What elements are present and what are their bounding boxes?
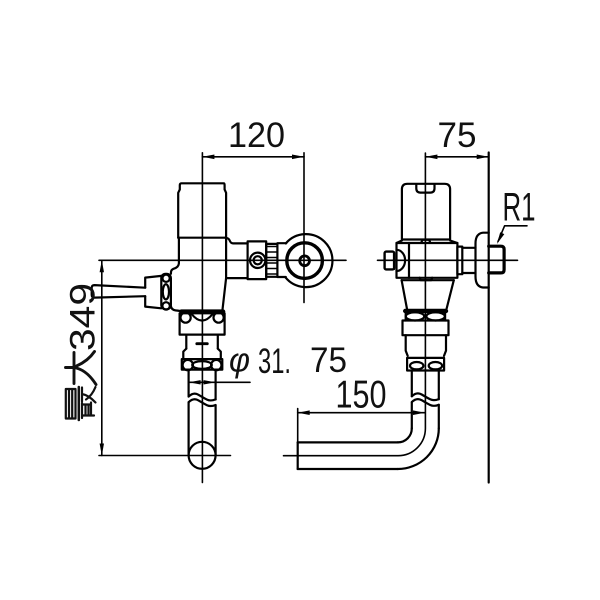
- right view body cap: [402, 184, 450, 240]
- cap to block flares: [397, 241, 458, 244]
- cap top slot: [416, 184, 434, 192]
- left view horizontal center line: [99, 259, 346, 261]
- right view center line with elbow curve: [284, 153, 426, 456]
- seat bump lower: [420, 278, 433, 280]
- outlet collar: [457, 247, 462, 275]
- ball center bold circle: [300, 256, 310, 266]
- upper nut right ball: [214, 313, 224, 323]
- dimension line max349: [101, 260, 103, 455]
- tailpipe bottom outlet circle: [189, 442, 216, 469]
- ball right crescent: [320, 250, 322, 270]
- lower nut middle ellipse: [192, 361, 212, 369]
- dimension 150 extension line: [297, 409, 299, 443]
- svg-text:R1: R1: [503, 186, 536, 230]
- svg-text:φ: φ: [229, 342, 250, 380]
- wall nipple: [462, 248, 475, 273]
- adjuster slot: [197, 342, 208, 345]
- upper nut middle arc: [192, 314, 213, 321]
- knurled ring: [266, 244, 277, 277]
- knurl ribs: [266, 247, 277, 275]
- narrow section sides: [406, 335, 446, 356]
- collar ellipse left: [406, 312, 424, 320]
- lower flare left: [183, 349, 186, 360]
- svg-text:120: 120: [228, 116, 285, 155]
- cone top line: [402, 279, 454, 281]
- arrow 349 bottom: [100, 444, 104, 456]
- arrow phi right: [204, 380, 216, 384]
- ball left crescent: [287, 250, 289, 270]
- right break lower wavy: [412, 399, 439, 406]
- right nut ellipse left: [410, 362, 423, 369]
- pipe open end: [297, 442, 299, 469]
- arrow 75 left: [425, 155, 437, 160]
- dimension line 120: [202, 156, 304, 158]
- stop screw washer: [393, 253, 395, 270]
- dimension line 150: [298, 412, 425, 414]
- tailpipe lower segment: [189, 402, 216, 455]
- flange top ball: [163, 275, 170, 282]
- upper union nut: [180, 313, 225, 334]
- elbow outer arc: [398, 428, 439, 469]
- handle lever grip: [92, 285, 146, 298]
- R1 leader: [498, 226, 527, 242]
- svg-text:349: 349: [64, 283, 103, 351]
- lower union nut: [182, 359, 223, 370]
- kanji dai (big): [66, 352, 97, 385]
- coupling nut donut inner: [254, 256, 262, 264]
- horizontal pipe bottom: [298, 468, 398, 470]
- outlet horizontal center line: [99, 455, 231, 457]
- spud flange outer circle: [285, 234, 332, 287]
- arrow 120 left: [202, 155, 214, 160]
- coupling nut donut outer: [250, 253, 265, 268]
- stop screw head: [385, 252, 395, 270]
- R1 leader arrow: [497, 232, 504, 244]
- svg-text:75: 75: [310, 341, 347, 380]
- svg-text:75: 75: [438, 116, 477, 155]
- body left side: [171, 238, 179, 274]
- handle cone: [145, 276, 161, 308]
- collar ellipse right: [426, 312, 444, 320]
- body right lower taper: [223, 278, 227, 310]
- wall boss R1: [489, 246, 504, 273]
- kanji sai (most): [66, 387, 96, 420]
- tailpipe upper segment: [189, 370, 216, 400]
- tailpipe break upper wavy: [189, 394, 216, 401]
- right view mid block: [397, 243, 458, 278]
- right packing thick band: [405, 309, 446, 313]
- bonnet D arc: [397, 250, 406, 271]
- arrow 120 right: [292, 155, 304, 160]
- spud cylinder: [277, 243, 286, 277]
- upper nut left ball: [181, 313, 191, 323]
- cone sides: [402, 280, 454, 309]
- packing thick band: [181, 309, 223, 313]
- left view vertical center line: [201, 153, 203, 483]
- lower flare right: [218, 349, 221, 360]
- elbow inner arc: [398, 428, 412, 442]
- wall flange bell: [476, 233, 489, 288]
- body right side: [225, 238, 227, 278]
- svg-text:31.: 31.: [258, 342, 291, 381]
- rotated dimension text max 349: [64, 283, 103, 420]
- union body rect: [403, 321, 449, 336]
- right lower union nut: [407, 358, 444, 371]
- wall line: [488, 153, 490, 483]
- coupling nut: [248, 241, 267, 279]
- arrow 150 right: [413, 410, 425, 415]
- body ledge line: [178, 237, 226, 239]
- tailpipe break lower wavy: [189, 399, 216, 406]
- spud vertical center line: [303, 153, 305, 303]
- right tailpipe lower segment: [412, 402, 439, 428]
- lower nut left ball: [183, 360, 193, 370]
- right nut ellipse right: [429, 362, 442, 369]
- arrow 349 top: [100, 260, 104, 272]
- right arm top: [225, 238, 247, 244]
- body lower-left fillet: [171, 306, 182, 312]
- dimension phi31.75 leader: [189, 381, 250, 383]
- valve lower section sides: [186, 335, 218, 349]
- arrow 75 right: [477, 155, 489, 160]
- flange middle ellipse: [163, 284, 169, 299]
- arrow phi left: [189, 380, 201, 384]
- lower nut right ball: [211, 360, 221, 370]
- valve body cap (left view): [178, 183, 226, 237]
- flange bottom ball: [162, 302, 169, 309]
- horizontal pipe top: [298, 441, 398, 443]
- right break upper wavy: [412, 393, 439, 400]
- right arm bottom: [226, 277, 248, 279]
- collar verticals: [406, 313, 445, 321]
- arrow 150 left: [298, 410, 310, 415]
- right tailpipe upper segment: [412, 371, 439, 400]
- right view horizontal center line: [378, 259, 518, 261]
- seat bump upper: [421, 240, 430, 243]
- mid block divider: [408, 243, 410, 278]
- dimension line 75: [425, 156, 488, 158]
- ball joint bold circle: [287, 243, 323, 279]
- handle flange: [161, 274, 171, 310]
